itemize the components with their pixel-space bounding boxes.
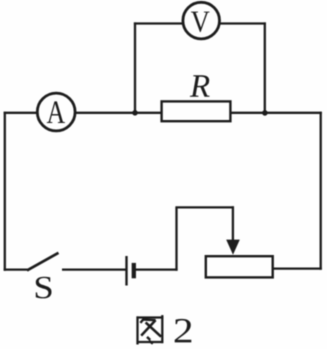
wire: main horizontal right segment — [230, 112, 322, 114]
wire: voltmeter branch right vertical — [264, 22, 266, 112]
wire: switch to battery — [62, 268, 126, 270]
slider arrowhead — [226, 240, 240, 255]
wire: main horizontal left segment (through ammeter row) — [4, 112, 163, 114]
wire: slider drop vertical — [232, 206, 234, 242]
wire: right vertical — [320, 112, 322, 270]
wire: bottom-left to switch — [4, 268, 28, 270]
switch S blade — [27, 253, 59, 271]
label S — [36, 277, 52, 299]
wire: riser vertical to slider — [175, 207, 177, 270]
wire: left vertical — [4, 112, 6, 271]
caption: character 图 — [137, 315, 164, 344]
wire: slider top horizontal — [175, 206, 234, 208]
wire: voltmeter top horizontal — [134, 22, 266, 24]
caption: digit 2 — [175, 319, 192, 343]
node: left junction dot — [132, 110, 138, 116]
resistor R body — [162, 101, 231, 121]
wire: voltmeter branch left vertical — [134, 22, 136, 112]
label R — [190, 75, 210, 96]
ammeter A — [37, 93, 75, 131]
node: right junction dot — [262, 110, 268, 116]
wire: rheostat to right vertical — [272, 267, 322, 269]
battery long plate — [125, 256, 127, 286]
voltmeter V — [183, 2, 220, 39]
battery short plate — [132, 263, 136, 278]
rheostat body — [206, 256, 273, 277]
wire: battery to riser — [135, 268, 178, 270]
